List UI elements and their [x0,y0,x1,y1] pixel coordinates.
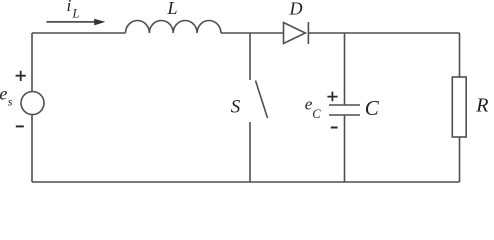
svg-text:s: s [8,95,13,109]
svg-text:C: C [365,96,380,120]
svg-text:L: L [167,0,178,18]
svg-text:S: S [231,97,241,118]
svg-text:D: D [289,0,303,18]
svg-text:L: L [72,7,80,21]
svg-text:R: R [475,95,488,117]
svg-text:e: e [0,83,7,103]
svg-text:C: C [312,107,321,121]
svg-text:i: i [67,0,72,15]
